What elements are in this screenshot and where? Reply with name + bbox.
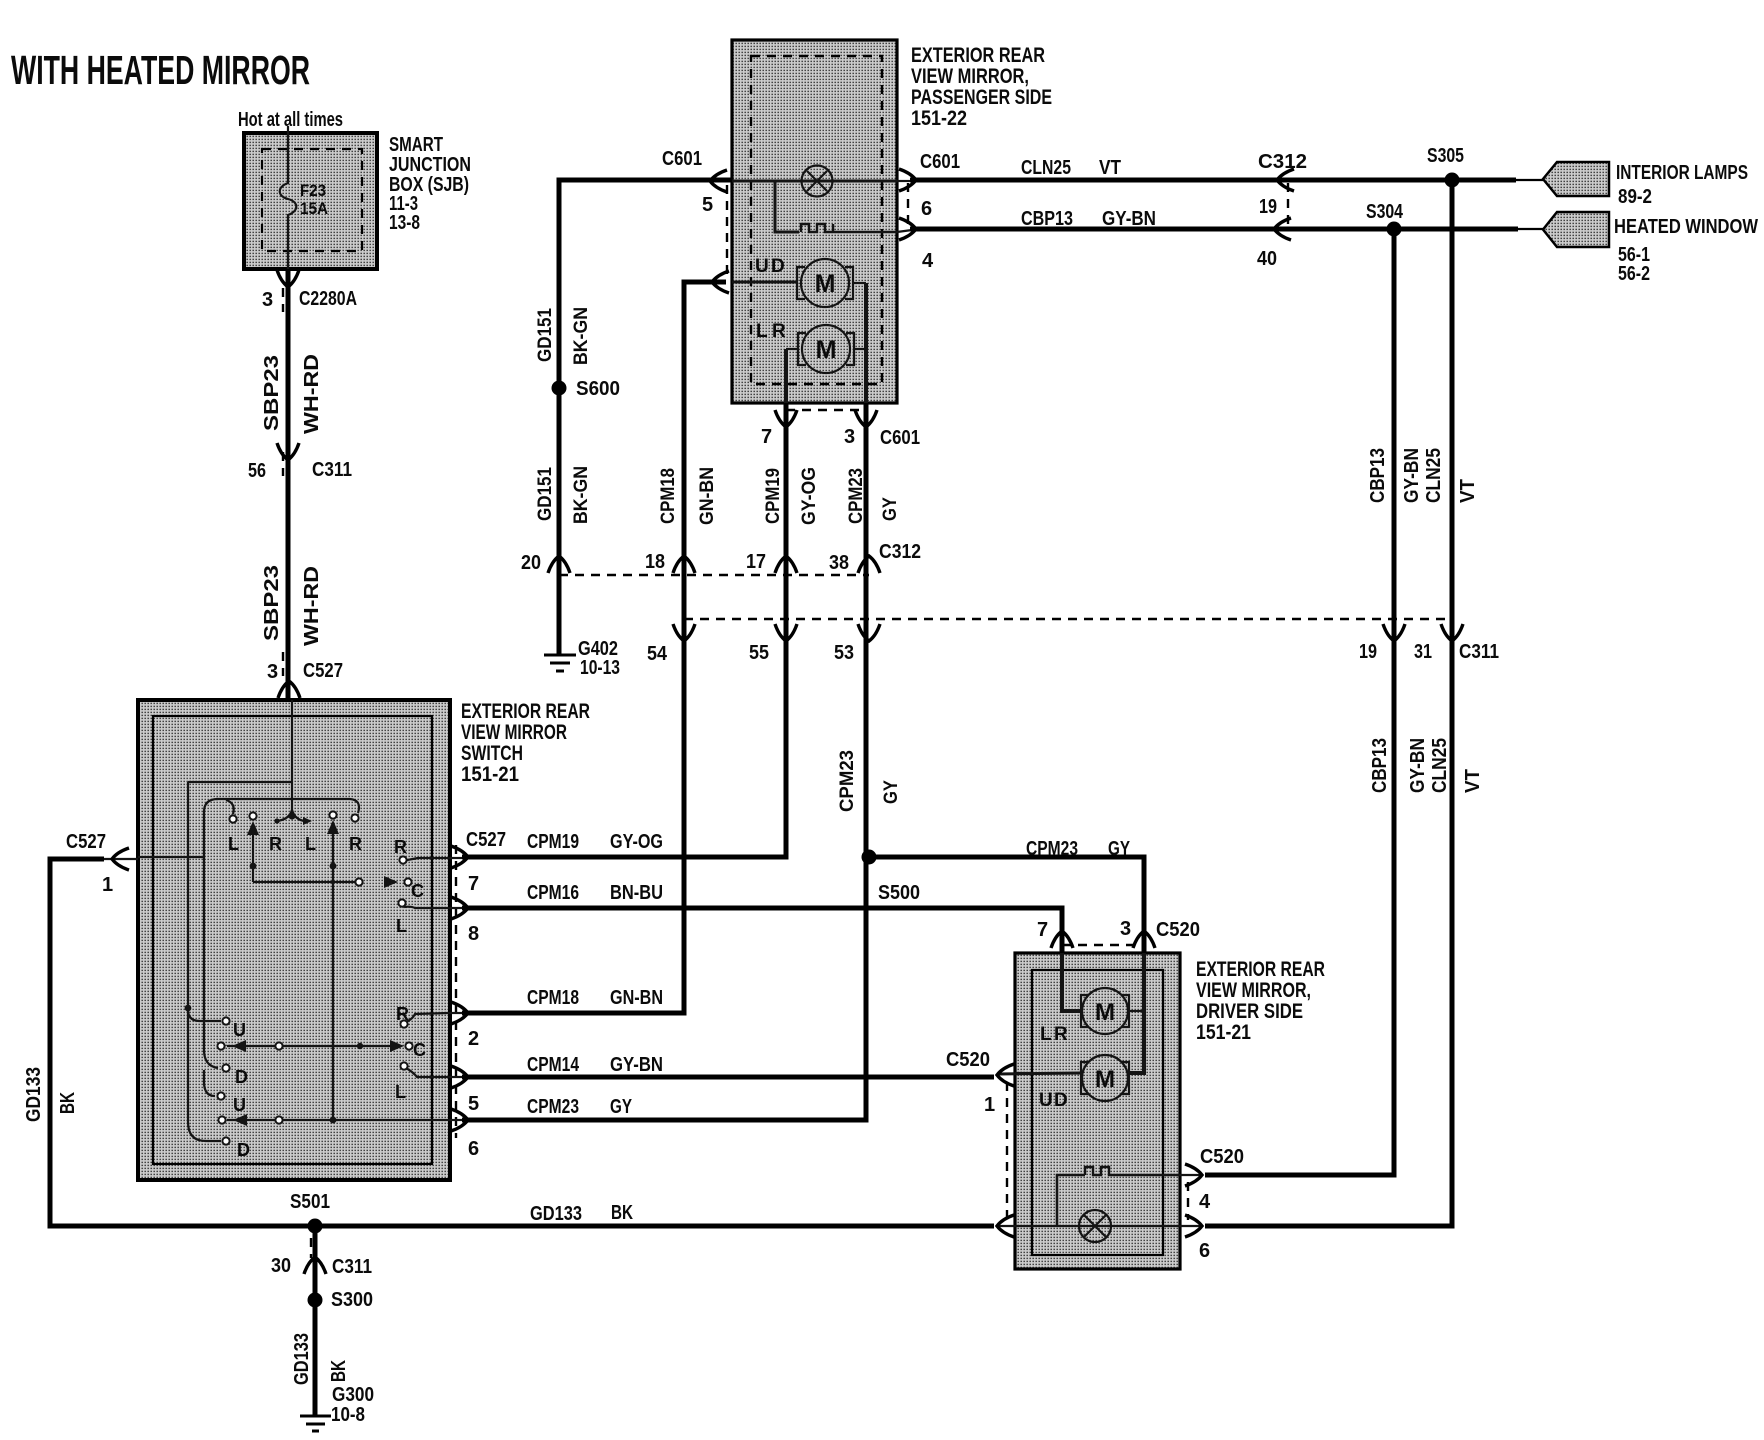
svg-text:CPM23: CPM23 [527,1096,579,1118]
svg-text:C527: C527 [66,831,106,853]
svg-text:SBP23: SBP23 [261,355,283,431]
svg-text:CPM23: CPM23 [846,468,867,524]
svg-text:4: 4 [922,250,934,272]
svg-text:C601: C601 [880,427,920,449]
svg-text:1: 1 [984,1094,995,1116]
svg-text:L: L [1040,1024,1052,1045]
svg-text:38: 38 [829,552,849,574]
svg-text:D: D [771,256,785,277]
svg-text:GY: GY [880,497,901,521]
svg-text:10-8: 10-8 [331,1404,365,1426]
svg-text:2: 2 [468,1028,479,1050]
svg-text:M: M [1095,999,1115,1026]
svg-text:5: 5 [702,194,713,216]
svg-text:GD133: GD133 [23,1067,45,1122]
svg-text:R: R [396,1004,409,1024]
svg-text:3: 3 [262,289,273,311]
svg-text:VIEW MIRROR,: VIEW MIRROR, [911,65,1029,88]
svg-text:GD133: GD133 [291,1333,313,1385]
svg-text:R: R [394,837,407,857]
svg-text:1: 1 [102,874,113,896]
svg-text:HEATED WINDOW: HEATED WINDOW [1614,216,1758,238]
svg-text:R: R [349,834,362,854]
svg-text:U: U [233,1020,246,1040]
svg-text:30: 30 [271,1255,291,1277]
svg-text:JUNCTION: JUNCTION [389,154,471,176]
svg-text:GD151: GD151 [535,308,556,362]
svg-text:15A: 15A [300,199,328,218]
svg-text:20: 20 [521,552,541,574]
svg-text:19: 19 [1359,641,1377,663]
svg-text:8: 8 [468,923,479,945]
svg-text:INTERIOR LAMPS: INTERIOR LAMPS [1616,162,1748,184]
svg-text:D: D [237,1140,250,1160]
svg-text:13-8: 13-8 [389,212,420,234]
svg-text:19: 19 [1259,196,1277,218]
svg-text:5: 5 [468,1093,479,1115]
svg-text:89-2: 89-2 [1618,186,1652,208]
svg-text:CBP13: CBP13 [1369,738,1391,793]
svg-text:CBP13: CBP13 [1367,448,1389,503]
svg-text:S300: S300 [331,1289,373,1311]
svg-text:C2280A: C2280A [299,288,357,310]
svg-text:Hot at all times: Hot at all times [238,109,343,131]
svg-text:WH-RD: WH-RD [301,354,323,434]
svg-text:L: L [228,834,239,854]
svg-text:C527: C527 [303,660,343,682]
svg-text:7: 7 [1037,919,1048,941]
svg-text:6: 6 [468,1138,479,1160]
svg-text:M: M [816,336,837,364]
svg-text:C520: C520 [946,1049,990,1071]
svg-text:CLN25: CLN25 [1423,448,1445,503]
svg-text:R: R [1054,1024,1068,1045]
svg-text:151-22: 151-22 [911,107,967,130]
svg-text:C311: C311 [1459,641,1499,663]
svg-text:C312: C312 [879,541,921,563]
svg-text:WH-RD: WH-RD [301,566,323,646]
svg-text:S501: S501 [290,1191,330,1213]
svg-text:7: 7 [761,426,772,448]
svg-text:VT: VT [1099,157,1121,179]
svg-text:L: L [396,916,407,936]
svg-text:C527: C527 [466,829,506,851]
svg-text:F23: F23 [300,181,326,200]
svg-text:C520: C520 [1200,1146,1244,1168]
svg-text:BK: BK [57,1092,79,1114]
svg-text:10-13: 10-13 [580,657,620,679]
svg-text:GY-BN: GY-BN [1102,208,1156,230]
svg-text:CPM19: CPM19 [763,468,784,524]
svg-text:53: 53 [834,642,854,664]
svg-text:S500: S500 [878,882,920,904]
svg-text:BK: BK [328,1360,350,1382]
svg-text:CBP13: CBP13 [1021,208,1073,230]
svg-text:GY-BN: GY-BN [610,1054,663,1076]
svg-text:VT: VT [1457,479,1479,503]
svg-text:M: M [815,270,836,298]
svg-text:56: 56 [248,460,266,482]
svg-text:VIEW MIRROR,: VIEW MIRROR, [1196,979,1311,1002]
svg-text:18: 18 [645,551,665,573]
svg-text:CPM18: CPM18 [527,987,579,1009]
svg-text:151-21: 151-21 [1196,1021,1251,1044]
svg-text:VIEW MIRROR: VIEW MIRROR [461,721,567,744]
svg-text:40: 40 [1257,248,1277,270]
svg-text:GY-OG: GY-OG [610,831,663,853]
svg-text:CLN25: CLN25 [1021,157,1071,179]
svg-text:GY-BN: GY-BN [1401,448,1423,503]
svg-text:G300: G300 [332,1384,374,1406]
svg-text:C311: C311 [332,1256,372,1278]
svg-text:3: 3 [844,426,855,448]
svg-text:L: L [395,1082,406,1102]
svg-text:S600: S600 [576,378,620,400]
svg-text:S305: S305 [1427,145,1464,167]
svg-text:WITH HEATED MIRROR: WITH HEATED MIRROR [11,47,310,93]
svg-text:U: U [755,256,769,277]
svg-text:C312: C312 [1258,151,1307,173]
svg-text:C601: C601 [662,148,702,170]
svg-text:55: 55 [749,642,769,664]
svg-text:C: C [411,881,424,901]
svg-text:BK-GN: BK-GN [571,307,592,365]
svg-text:GY: GY [1108,838,1130,860]
svg-text:C: C [413,1040,426,1060]
svg-text:D: D [1054,1090,1068,1111]
svg-text:3: 3 [1120,918,1131,940]
svg-text:CPM23: CPM23 [837,750,858,812]
svg-text:U: U [233,1095,246,1115]
svg-text:BK: BK [611,1202,633,1224]
svg-text:SWITCH: SWITCH [461,742,523,765]
svg-text:56-2: 56-2 [1618,263,1650,285]
svg-text:SMART: SMART [389,134,443,156]
svg-text:CPM23: CPM23 [1026,838,1078,860]
svg-text:6: 6 [921,198,932,220]
svg-text:CLN25: CLN25 [1429,738,1451,793]
svg-text:151-21: 151-21 [461,763,519,786]
svg-text:3: 3 [267,661,278,683]
svg-text:EXTERIOR REAR: EXTERIOR REAR [911,44,1045,67]
svg-text:C601: C601 [920,151,960,173]
svg-text:DRIVER SIDE: DRIVER SIDE [1196,1000,1303,1023]
svg-text:GD151: GD151 [535,467,556,521]
svg-text:U: U [1039,1090,1053,1111]
svg-text:BN-BU: BN-BU [610,882,663,904]
svg-text:CPM16: CPM16 [527,882,579,904]
svg-text:D: D [235,1067,248,1087]
svg-text:M: M [1095,1066,1115,1093]
svg-text:EXTERIOR REAR: EXTERIOR REAR [1196,958,1325,981]
svg-text:17: 17 [746,551,766,573]
svg-text:GN-BN: GN-BN [610,987,663,1009]
svg-text:C311: C311 [312,459,352,481]
svg-text:BK-GN: BK-GN [571,466,592,524]
svg-text:R: R [772,321,786,342]
svg-text:GY-BN: GY-BN [1407,738,1429,793]
svg-text:4: 4 [1199,1191,1211,1213]
svg-text:GN-BN: GN-BN [697,467,718,525]
svg-text:PASSENGER SIDE: PASSENGER SIDE [911,86,1052,109]
svg-text:S304: S304 [1366,201,1404,223]
svg-text:GY: GY [881,780,902,804]
svg-text:VT: VT [1462,769,1484,793]
svg-text:L: L [305,834,316,854]
svg-text:L: L [756,321,768,342]
svg-text:CPM19: CPM19 [527,831,579,853]
svg-text:31: 31 [1414,641,1432,663]
svg-text:GD133: GD133 [530,1203,582,1225]
svg-text:SBP23: SBP23 [261,565,283,641]
svg-text:GY: GY [610,1096,632,1118]
svg-text:GY-OG: GY-OG [799,467,820,525]
svg-text:CPM18: CPM18 [658,468,679,524]
svg-text:54: 54 [647,643,668,665]
svg-text:7: 7 [468,873,479,895]
svg-text:R: R [269,834,282,854]
svg-text:EXTERIOR REAR: EXTERIOR REAR [461,700,590,723]
svg-text:C520: C520 [1156,919,1200,941]
svg-text:6: 6 [1199,1240,1210,1262]
svg-text:CPM14: CPM14 [527,1054,580,1076]
